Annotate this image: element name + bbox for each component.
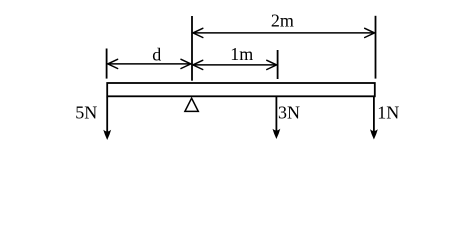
force arrow 1N <box>370 97 378 140</box>
tick 1m right (3N extension line) <box>277 50 279 79</box>
dimension 1m arrow <box>193 60 277 69</box>
force arrow 3N <box>273 97 281 139</box>
svg-text:2m: 2m <box>271 11 294 31</box>
svg-text:1N: 1N <box>377 102 399 122</box>
pivot extension line (vertical) <box>191 16 193 81</box>
force arrow 5N <box>103 97 111 140</box>
tick right end (2m dimension right extension line) <box>375 16 377 79</box>
dimension d arrow <box>108 59 191 68</box>
svg-text:d: d <box>152 44 161 64</box>
svg-text:1m: 1m <box>230 44 253 64</box>
beam (lever bar) <box>107 83 375 96</box>
tick left (d dimension left extension line) <box>106 49 108 79</box>
pivot (fulcrum triangle) <box>185 98 198 111</box>
dimension 2m arrow <box>193 28 375 37</box>
svg-text:3N: 3N <box>278 102 300 122</box>
svg-text:5N: 5N <box>75 102 97 122</box>
